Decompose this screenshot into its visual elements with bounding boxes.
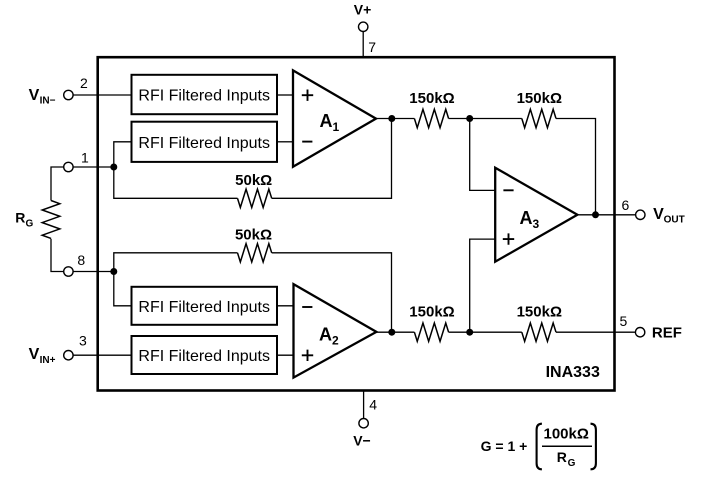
terminal pin 6 (VOUT) <box>636 210 645 219</box>
pin number 5 <box>620 313 628 329</box>
svg-text:4: 4 <box>369 397 377 413</box>
junction node pin1 <box>110 164 117 171</box>
svg-text:G = 1 +: G = 1 + <box>481 438 528 454</box>
svg-text:R: R <box>15 210 25 226</box>
op-amp A1 <box>293 70 376 166</box>
svg-text:V: V <box>29 346 40 363</box>
svg-text:50kΩ: 50kΩ <box>235 172 272 189</box>
wire RFI box1 to A1 + <box>277 94 293 96</box>
label 150k top-left <box>409 90 454 107</box>
resistor 150k top-right <box>522 109 556 127</box>
svg-text:V: V <box>653 206 664 223</box>
op-amp A3 <box>495 168 577 262</box>
svg-text:150kΩ: 150kΩ <box>517 90 562 107</box>
svg-text:3: 3 <box>79 333 87 349</box>
svg-text:7: 7 <box>368 39 376 55</box>
equation numerator 100kOhm <box>544 425 589 442</box>
svg-text:A: A <box>520 208 533 228</box>
label V- <box>353 432 371 448</box>
svg-text:RFI Filtered Inputs: RFI Filtered Inputs <box>138 348 270 365</box>
resistor 50k top feedback loop wire left <box>114 167 238 198</box>
equation fraction bar <box>542 445 592 447</box>
svg-text:OUT: OUT <box>664 215 685 226</box>
svg-text:IN−: IN− <box>40 96 56 107</box>
junction node top mid <box>466 115 473 122</box>
wire 150k top-right down to A3 output node <box>556 119 596 215</box>
RFI filter box 2 (A1 -input) <box>132 122 278 162</box>
wire A3 output to VOUT terminal <box>577 214 635 216</box>
pin number 2 <box>80 75 88 91</box>
wire 150k top-left to 150k top-right <box>449 118 522 120</box>
op-amp A2 <box>294 284 377 378</box>
label VIN- <box>29 87 56 107</box>
label 150k bottom-left <box>409 304 454 321</box>
pin number 8 <box>77 252 85 268</box>
svg-text:RFI Filtered Inputs: RFI Filtered Inputs <box>138 299 270 316</box>
svg-text:R: R <box>557 449 567 465</box>
wire box bottom to pin4 <box>363 391 365 419</box>
junction node A1 output <box>388 115 395 122</box>
svg-text:2: 2 <box>332 334 339 348</box>
resistor 50k bottom feedback loop wire left <box>114 253 238 272</box>
label 50k bottom <box>235 226 272 243</box>
label 150k bottom-right <box>517 304 562 321</box>
svg-text:IN+: IN+ <box>40 355 56 366</box>
pin number 7 <box>368 39 376 55</box>
resistor RG external <box>42 167 63 272</box>
wire A2 output <box>376 331 414 333</box>
label 150k top-right <box>517 90 562 107</box>
resistor 50k top <box>238 189 272 207</box>
svg-text:1: 1 <box>81 150 89 166</box>
wire pin1 to junction <box>73 166 114 168</box>
svg-text:50kΩ: 50kΩ <box>235 226 272 243</box>
svg-text:RFI Filtered Inputs: RFI Filtered Inputs <box>138 135 270 152</box>
wire top mid junction down to A3 - input <box>470 119 496 191</box>
junction node A3 output <box>592 211 599 218</box>
label V+ <box>354 1 372 17</box>
wire pin3 to RFI box 4 <box>73 354 131 356</box>
resistor 50k bottom <box>238 244 272 262</box>
label 50k top <box>235 172 272 189</box>
wire A1 output <box>376 118 414 120</box>
equation left bracket <box>537 424 542 470</box>
svg-text:A: A <box>320 111 333 131</box>
terminal pin 3 (VIN+) <box>64 351 73 360</box>
wire 150k bottom-left to 150k bottom-right <box>449 331 522 333</box>
svg-text:RFI Filtered Inputs: RFI Filtered Inputs <box>138 88 270 105</box>
svg-text:150kΩ: 150kΩ <box>409 90 454 107</box>
IC outline box U (INA333) <box>98 57 615 390</box>
svg-text:2: 2 <box>80 75 88 91</box>
gain equation G = 1 + [100kOhm / RG] <box>481 438 528 454</box>
terminal pin 8 <box>64 267 73 276</box>
wire 50k bottom to A2 output <box>272 253 392 332</box>
wire pin7 to box top <box>362 32 364 58</box>
wire junction down to RFI box 3 input <box>114 272 132 306</box>
svg-text:6: 6 <box>622 197 630 213</box>
junction node bottom mid <box>466 329 473 336</box>
terminal pin 2 (VIN-) <box>64 90 73 99</box>
svg-text:150kΩ: 150kΩ <box>517 304 562 321</box>
equation denominator RG <box>557 449 576 469</box>
svg-text:V+: V+ <box>354 1 372 17</box>
RFI filter box 3 (A2 -input) <box>132 287 278 325</box>
pin number 6 <box>622 197 630 213</box>
terminal pin 5 (REF) <box>635 328 644 337</box>
wire RFI box4 to A2 + <box>277 354 294 356</box>
junction node pin8 <box>110 268 117 275</box>
label REF <box>652 324 682 341</box>
svg-text:100kΩ: 100kΩ <box>544 425 589 442</box>
resistor 150k top-left <box>414 109 448 127</box>
label RG <box>15 210 33 230</box>
resistor 150k bottom-right <box>522 323 556 341</box>
terminal pin 1 <box>64 162 73 171</box>
label VOUT <box>653 206 685 226</box>
terminal pin 4 (V-) <box>359 419 368 428</box>
terminal pin 7 (V+) <box>359 22 368 31</box>
svg-text:V−: V− <box>353 432 371 448</box>
equation right bracket <box>591 424 596 470</box>
wire RFI box3 to A2 - <box>277 305 294 307</box>
svg-text:150kΩ: 150kΩ <box>409 304 454 321</box>
wire bottom mid junction up to A3 + input <box>470 239 496 332</box>
svg-text:3: 3 <box>533 217 540 231</box>
label VIN+ <box>29 346 56 366</box>
wire 150k bottom-right to REF terminal <box>556 331 635 333</box>
svg-text:A: A <box>319 325 332 345</box>
wire junction up to RFI box 2 input <box>114 142 132 167</box>
wire 50k top to A1 output <box>272 119 392 199</box>
svg-text:5: 5 <box>620 313 628 329</box>
resistor 150k bottom-left <box>414 323 448 341</box>
wire RFI box2 to A1 - <box>277 141 293 143</box>
wire pin2 to RFI box 1 <box>73 94 131 96</box>
wire pin8 to junction <box>73 271 114 273</box>
svg-text:8: 8 <box>77 252 85 268</box>
RFI filter box 1 (A1 +input) <box>132 75 278 114</box>
RFI filter box 4 (A2 +input) <box>132 336 278 374</box>
pin number 1 <box>81 150 89 166</box>
label INA333 <box>546 364 600 381</box>
pin number 4 <box>369 397 377 413</box>
svg-text:1: 1 <box>333 120 340 134</box>
junction node A2 output <box>388 329 395 336</box>
svg-text:G: G <box>26 218 34 229</box>
svg-text:REF: REF <box>652 324 682 341</box>
pin number 3 <box>79 333 87 349</box>
svg-text:INA333: INA333 <box>546 364 600 381</box>
svg-text:G: G <box>568 458 576 469</box>
svg-text:V: V <box>29 87 40 104</box>
